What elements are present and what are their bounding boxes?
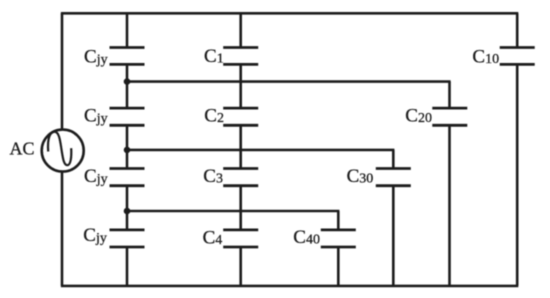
capacitor C2 xyxy=(223,108,258,125)
svg-text:C40: C40 xyxy=(293,227,320,248)
capacitor Cjy row1 plates xyxy=(110,48,145,65)
capacitor C20 xyxy=(432,108,467,125)
wire C40 branch lower xyxy=(337,247,340,286)
capacitor C40 xyxy=(321,230,356,247)
svg-text:Cjy: Cjy xyxy=(83,225,107,246)
svg-text:C10: C10 xyxy=(472,46,499,67)
wire node3 horizontal xyxy=(127,210,339,213)
svg-text:C3: C3 xyxy=(203,166,223,187)
wire node2 horizontal xyxy=(127,149,394,152)
svg-text:Cjy: Cjy xyxy=(84,47,108,68)
svg-text:Cjy: Cjy xyxy=(84,105,108,126)
wire Cjy column segment c xyxy=(126,125,129,168)
wire Cjy column segment b xyxy=(126,64,129,108)
svg-text:C30: C30 xyxy=(347,166,374,187)
wire C column segment c xyxy=(239,125,242,168)
AC source xyxy=(42,130,84,172)
wire C30 branch upper xyxy=(392,150,395,169)
svg-text:C1: C1 xyxy=(204,46,224,67)
capacitor Cjy row3 plates xyxy=(110,169,145,186)
wire C40 branch upper xyxy=(337,211,340,230)
node dot 1 xyxy=(124,78,131,85)
wire C20 branch upper xyxy=(448,82,451,109)
wire C20 branch lower xyxy=(448,125,451,286)
wire C column segment e xyxy=(239,247,242,286)
wire C column segment b xyxy=(239,64,242,108)
capacitor C4 xyxy=(223,230,258,247)
capacitor Cjy row4 plates xyxy=(110,230,145,247)
wire bottom rail xyxy=(61,285,518,288)
wire left branch lower segment xyxy=(61,171,64,286)
wire C10 branch lower xyxy=(516,64,519,286)
wire C column segment d xyxy=(239,186,242,230)
wire node1 horizontal xyxy=(127,80,451,83)
node dot 3 xyxy=(124,208,131,215)
capacitor C10 xyxy=(500,48,535,65)
wire C10 branch upper xyxy=(516,13,519,47)
svg-text:C4: C4 xyxy=(203,228,223,249)
wire C column segment a xyxy=(239,13,242,47)
wire C30 branch lower xyxy=(392,186,395,286)
svg-text:C20: C20 xyxy=(405,105,432,126)
wire Cjy column segment e xyxy=(126,247,129,286)
wire top rail xyxy=(61,12,518,15)
wire left branch upper segment xyxy=(61,13,64,130)
node dot 2 xyxy=(124,147,131,154)
svg-text:AC: AC xyxy=(10,139,35,159)
capacitor C1 xyxy=(223,48,258,65)
wire Cjy column segment d xyxy=(126,186,129,230)
svg-text:Cjy: Cjy xyxy=(84,166,108,187)
wire Cjy column segment a xyxy=(126,13,129,47)
capacitor C30 xyxy=(376,169,411,186)
svg-text:C2: C2 xyxy=(204,105,224,126)
capacitor Cjy row2 plates xyxy=(110,108,145,125)
capacitor C3 xyxy=(223,169,258,186)
